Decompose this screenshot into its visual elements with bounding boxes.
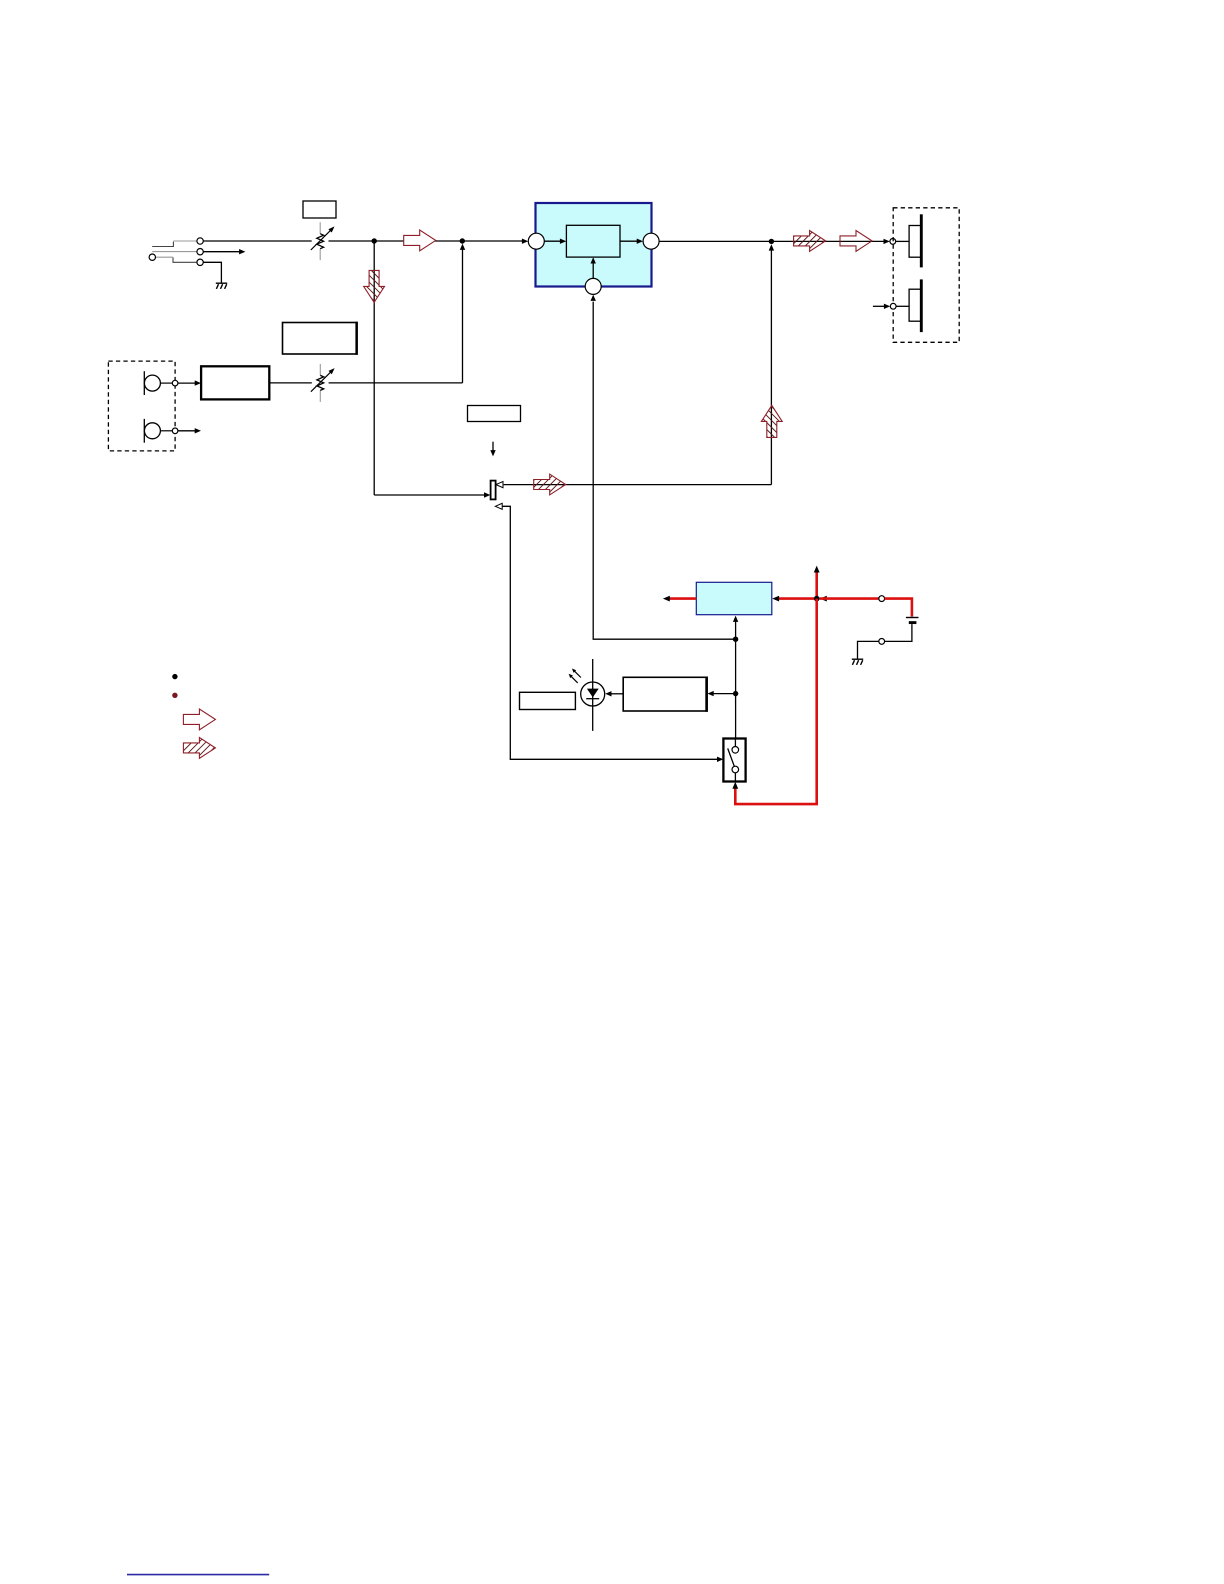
wire in-port to stage — [544, 240, 561, 242]
node junction J4 — [733, 637, 738, 642]
amp bottom port circle — [585, 278, 601, 294]
jack ground contact circle — [197, 259, 203, 265]
node junction J2 — [460, 238, 465, 243]
red wire up branch — [815, 572, 818, 599]
label box (LED) — [520, 692, 576, 709]
wire riser up to J3 — [770, 247, 772, 485]
microphone box (dashed) — [108, 361, 175, 451]
red wire to battery connector — [820, 597, 879, 600]
wire mic riser to main line — [462, 249, 464, 383]
wire driver to LED — [610, 693, 623, 695]
wire selector out to riser — [504, 484, 772, 486]
wire jack ground lead — [203, 262, 221, 282]
speaker box (dashed) — [893, 208, 959, 342]
wire mic1 to preamp — [178, 382, 196, 384]
wire battery negative lead — [885, 624, 912, 641]
red hatched up arrow A6 — [761, 405, 782, 437]
battery connector circle (+) — [879, 596, 885, 602]
label box (monitor sw) — [468, 406, 521, 422]
jack ring contact circle — [197, 249, 203, 255]
wire from J1 down to selector — [373, 241, 375, 495]
red hatched flow arrow A4 — [534, 474, 566, 495]
power block (cyan regulator) — [696, 582, 772, 614]
wire ring no-connect arrow — [203, 251, 240, 253]
jack J1 tip stub wire — [152, 242, 197, 263]
battery connector circle (-) — [879, 639, 885, 645]
speaker SP2 — [909, 289, 921, 321]
label box (mic gain) — [283, 323, 358, 355]
wire amp bottom to power rail — [593, 302, 735, 640]
red wire B+ left out — [668, 597, 696, 600]
wire selector throw2 to power switch — [502, 506, 718, 759]
jack sleeve contact circle — [149, 254, 155, 260]
amp inner stage rect — [566, 225, 620, 257]
jack tip contact circle — [197, 238, 203, 244]
mic preamp block — [201, 366, 269, 399]
switch contact circles — [732, 747, 739, 754]
LED driver block — [623, 677, 707, 711]
ground symbol (battery) — [852, 659, 863, 665]
wire stage to out-port — [620, 240, 638, 242]
node junction J6 — [814, 596, 820, 602]
wire mic2 stub arrow — [178, 430, 196, 432]
speaker connector circle (upper) — [890, 239, 896, 245]
legend hatched arrow — [183, 738, 215, 759]
red signal-flow arrow A1 — [404, 230, 436, 251]
label box (volume) — [303, 201, 336, 218]
LED D1 indicator — [592, 659, 594, 731]
red wire down to power switch — [735, 599, 816, 805]
ground symbol (jack) — [216, 283, 227, 289]
power switch S1 box — [723, 739, 745, 782]
wire control rail down to switch — [735, 639, 737, 738]
wire connector to speaker 1 — [896, 240, 909, 242]
wire amp output line — [659, 240, 884, 242]
amp output port circle — [643, 233, 659, 249]
small down arrow to selector — [492, 442, 494, 452]
legend open arrow — [183, 709, 215, 730]
speaker connector circle (lower) — [890, 303, 896, 309]
node junction J1 — [372, 238, 377, 243]
red open flow arrow A3 — [840, 231, 872, 252]
arrowhead into amp block — [522, 239, 528, 244]
wire preamp output — [269, 382, 312, 384]
battery BT1 — [906, 617, 919, 619]
red hatched down arrow A5 — [364, 270, 385, 302]
wire J4 up into power block — [735, 622, 737, 640]
node junction J3 — [769, 239, 774, 244]
arrowhead into speaker connector — [884, 239, 890, 244]
footer blue rule — [127, 1574, 269, 1576]
LED light rays — [575, 671, 581, 677]
legend maroon dot — [172, 693, 177, 698]
wire main input line — [203, 240, 311, 242]
legend black dot — [172, 674, 177, 679]
red hatched flow arrow A2 — [794, 231, 826, 252]
speaker SP1 — [909, 226, 921, 258]
amp block U1 (cyan) — [536, 203, 652, 287]
variable attenuator RV1 (volume) — [311, 222, 335, 260]
selector throw contact 2 (open triangle) — [495, 503, 502, 509]
selector throw contact 1 (open triangle) — [496, 482, 503, 488]
wire feed to speaker 2 — [873, 305, 885, 307]
selector switch pole — [491, 481, 496, 500]
amp input port circle — [528, 233, 544, 249]
wire bottom-port to stage — [592, 262, 594, 278]
jack J1 gray stub wires — [152, 241, 197, 257]
wire J5 to LED driver — [712, 693, 735, 695]
red wire battery to regulator — [778, 597, 817, 600]
microphone MIC1 — [143, 371, 145, 395]
variable attenuator RV2 (mic level) — [311, 364, 335, 402]
microphone MIC2 — [143, 419, 145, 443]
node junction J5 — [733, 691, 738, 696]
switch blade — [728, 748, 735, 766]
